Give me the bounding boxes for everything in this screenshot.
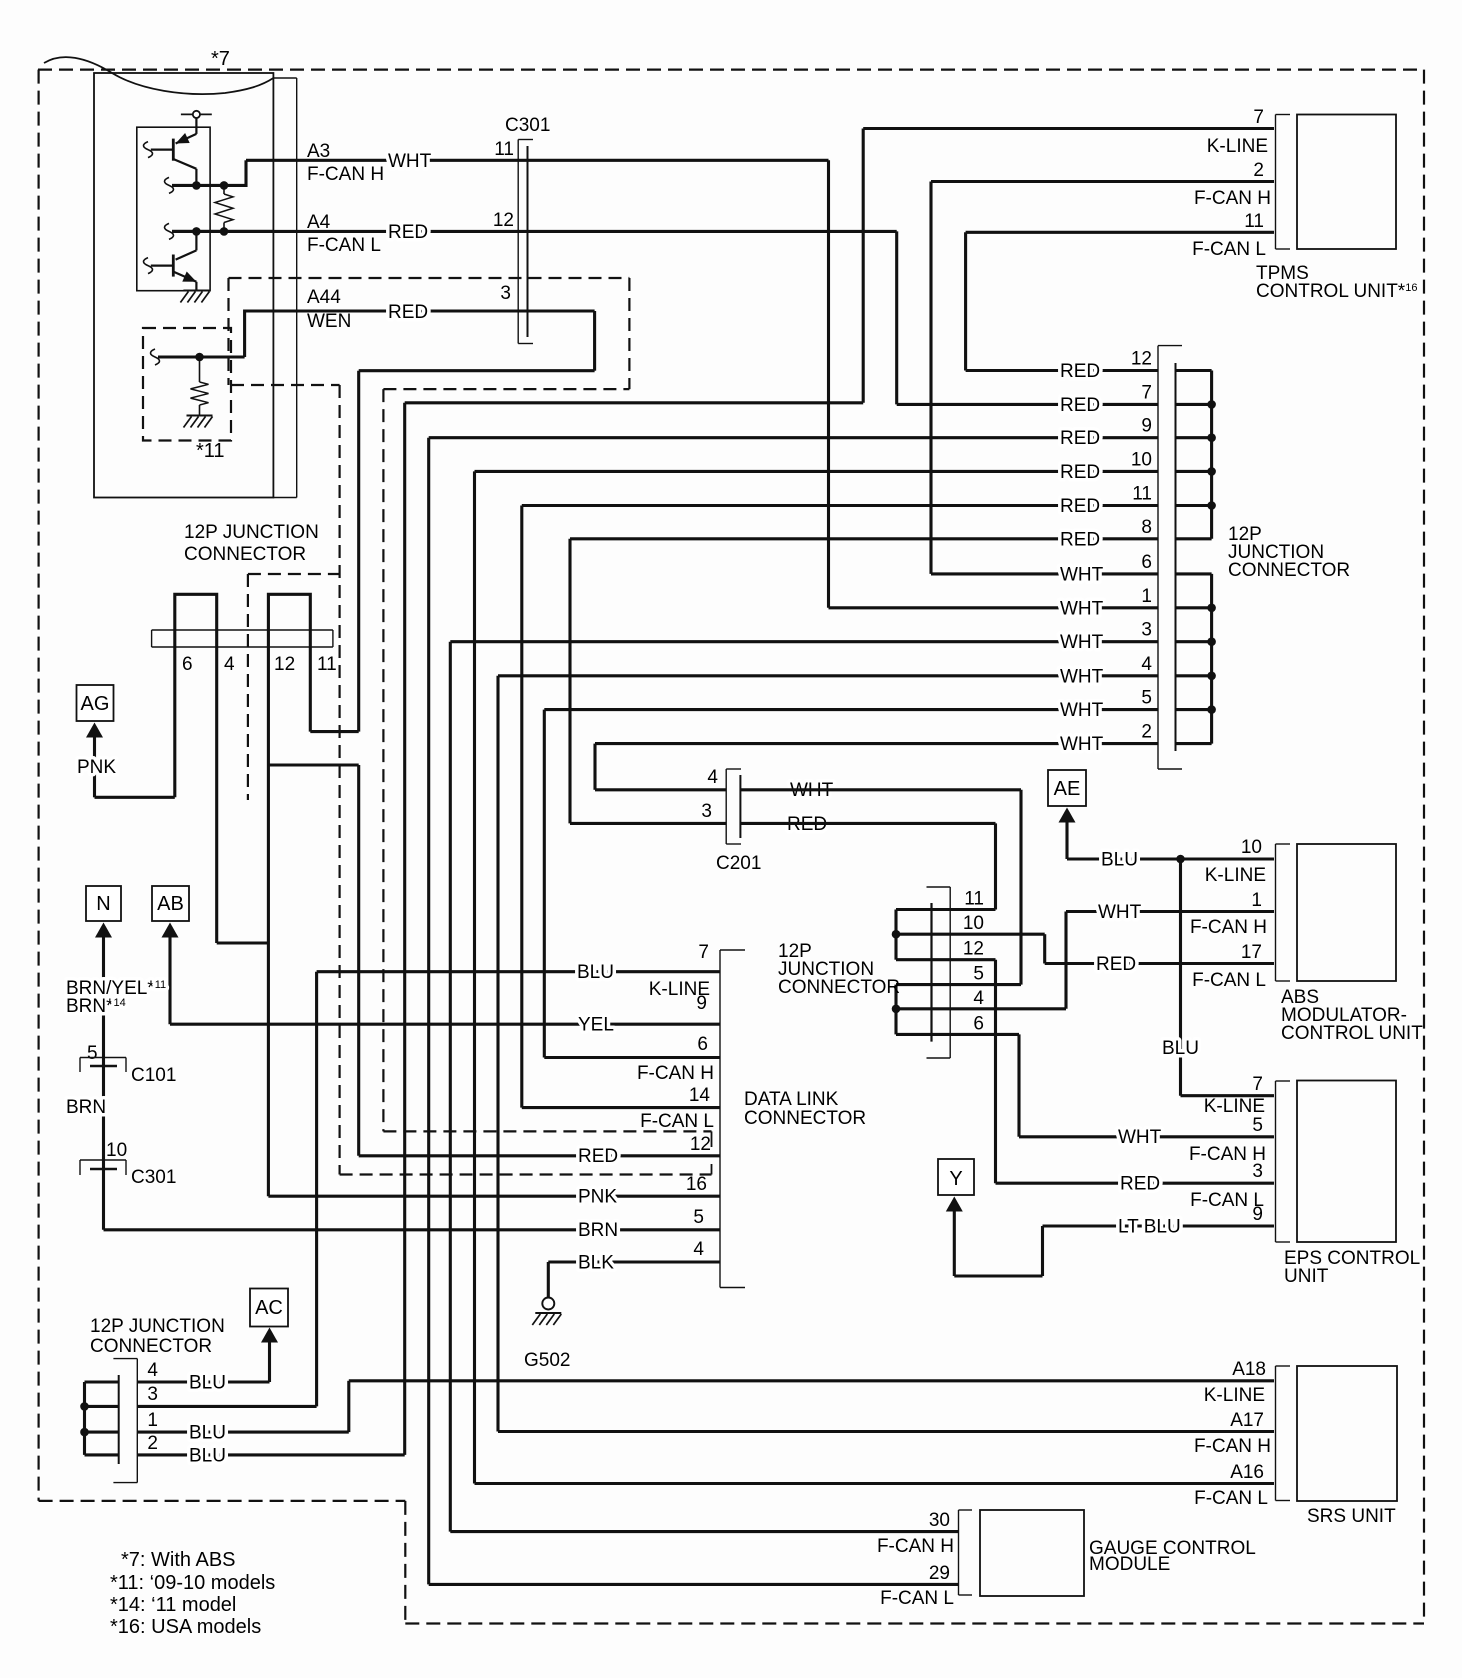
pin number 4 (middle 12P) <box>973 988 984 1009</box>
wire riser x=358 to DLC pin 12 <box>357 765 360 1156</box>
wire A44 to junction leg 11 <box>310 730 358 733</box>
svg-text:WHT: WHT <box>388 151 432 172</box>
SRS connector bracket <box>1276 1366 1291 1501</box>
wire stub right of pin 4 <box>1176 674 1212 677</box>
svg-text:2: 2 <box>1253 160 1264 181</box>
svg-text:12: 12 <box>963 939 984 960</box>
svg-text:RED: RED <box>1060 428 1100 449</box>
label F-CAN L (A4) <box>307 235 381 256</box>
svg-text:10: 10 <box>106 1140 127 1161</box>
wire riser x=570 row 8 down to C201 <box>568 539 571 824</box>
ABS connector bracket <box>1276 844 1291 981</box>
pin number 6 (right 12P) <box>1141 552 1152 573</box>
svg-text:*7: *7 <box>211 48 230 70</box>
wire WHT to right 12P pin 3 <box>450 640 1158 643</box>
connector box AB <box>152 886 189 921</box>
wire TPMS K-LINE riser x=863 <box>862 129 865 403</box>
label RED (A4 wire) <box>388 222 428 243</box>
svg-text:11: 11 <box>1244 211 1264 232</box>
svg-text:RED: RED <box>1096 954 1136 975</box>
arrow into Y <box>946 1197 963 1212</box>
wire RED to right 12P pin 10 <box>475 470 1159 473</box>
pin number 12 (middle 12P) <box>963 939 984 960</box>
wire bottom 12P pin 2 left segment <box>85 1453 119 1456</box>
pin number 16 (DLC) <box>686 1174 707 1195</box>
label K-LINE (EPS) <box>1204 1096 1265 1117</box>
wire bottom 12P pin 3 to riser x=316 <box>137 1405 316 1408</box>
outer dashed box *7 (with ABS) top edge <box>38 68 1424 70</box>
label WHT (right 12P pin 2) <box>1060 734 1104 755</box>
wire RED to right 12P pin 9 <box>429 436 1158 439</box>
svg-text:C201: C201 <box>716 853 761 874</box>
svg-text:9: 9 <box>1252 1204 1263 1225</box>
label AE <box>1054 778 1081 800</box>
svg-text:G502: G502 <box>524 1350 570 1371</box>
label C201 <box>716 853 761 874</box>
pin number 4 (DLC) <box>693 1239 704 1260</box>
svg-text:30: 30 <box>929 1510 950 1531</box>
svg-text:F-CAN L: F-CAN L <box>1192 970 1266 991</box>
svg-text:11: 11 <box>1132 484 1152 505</box>
label WHT (right 12P pin 4) <box>1060 666 1104 687</box>
junction dot bottom bus pin 3 <box>80 1402 89 1411</box>
pin number 5 (C101) <box>87 1043 98 1064</box>
svg-text:F-CAN H: F-CAN H <box>1190 917 1267 938</box>
TPMS control unit box <box>1297 115 1396 250</box>
label RED (DLC) <box>578 1146 618 1167</box>
transistor Q1 inner box <box>137 127 210 291</box>
svg-text:*11: ‘09-10 models: *11: ‘09-10 models <box>110 1572 275 1594</box>
wire F-CAN H to gauge pin 30 <box>450 1530 958 1533</box>
svg-text:C101: C101 <box>131 1065 176 1086</box>
pin number 6 (DLC) <box>697 1034 708 1055</box>
outer dashed box *7 bottom step vertical <box>404 1501 406 1624</box>
label K-LINE (SRS) <box>1204 1385 1265 1406</box>
middle 12P pin line <box>930 903 932 1042</box>
wire WHT F-CAN H to ABS pin 1 <box>1066 910 1274 913</box>
svg-text:*14: ‘11 model: *14: ‘11 model <box>110 1594 236 1616</box>
svg-text:A3: A3 <box>307 141 330 162</box>
connector C101 bracket <box>80 1058 126 1073</box>
label F-CAN L (ABS) <box>1192 970 1266 991</box>
svg-text:AG: AG <box>81 693 110 715</box>
svg-text:8: 8 <box>1141 517 1152 538</box>
svg-text:7: 7 <box>698 942 709 963</box>
EPS connector bracket <box>1276 1081 1291 1242</box>
svg-text:F-CAN L: F-CAN L <box>880 1588 954 1609</box>
svg-text:CONNECTOR: CONNECTOR <box>90 1336 212 1357</box>
svg-text:AE: AE <box>1054 778 1081 800</box>
svg-text:BLK: BLK <box>578 1253 614 1274</box>
junction dot right bus at y=709.6 <box>1207 705 1216 714</box>
svg-text:WHT: WHT <box>1060 734 1104 755</box>
F-CAN driver module box <box>94 73 273 498</box>
wire A44 riser down at x=358 <box>357 371 360 732</box>
svg-text:WHT: WHT <box>1060 632 1104 653</box>
svg-text:BLU: BLU <box>189 1373 226 1394</box>
junction dot right bus at y=675.8 <box>1207 672 1216 681</box>
svg-text:11: 11 <box>317 654 337 675</box>
right 12P bracket <box>1158 346 1182 769</box>
pin number 3 (bottom 12P) <box>147 1384 158 1405</box>
pin number 3 (EPS) <box>1252 1161 1263 1182</box>
svg-text:11: 11 <box>964 889 984 910</box>
junction dot resistor-bottom node <box>220 227 229 236</box>
wire K-LINE to EPS pin 7 <box>1181 1094 1275 1097</box>
wire riser x=545 row 5 down to DLC pin 6 <box>543 710 546 1058</box>
label K-LINE (ABS) <box>1205 865 1266 886</box>
svg-text:CONTROL UNIT*16: CONTROL UNIT*16 <box>1256 281 1417 302</box>
label C101 <box>131 1065 176 1086</box>
wire WHT to right 12P pin 5 <box>544 708 1158 711</box>
svg-text:17: 17 <box>1241 942 1262 963</box>
svg-text:F-CAN H: F-CAN H <box>1194 188 1271 209</box>
svg-text:RED: RED <box>1060 361 1100 382</box>
wire node to Q2 <box>195 231 197 250</box>
pin number 6 (top-left 12P) <box>182 654 193 675</box>
arrow into AB <box>162 923 179 938</box>
svg-text:7: 7 <box>1253 107 1264 128</box>
ground under R2 <box>184 416 213 428</box>
svg-text:RED: RED <box>1060 395 1100 416</box>
label C301 (lower) <box>131 1167 176 1188</box>
wire F-CAN H to TPMS pin 2 <box>931 180 1274 183</box>
wire riser x=475 row 10 down to SRS A16 <box>473 471 476 1483</box>
wire F-CAN H to DLC pin 6 <box>544 1056 720 1059</box>
label WHT (right 12P pin 6) <box>1060 564 1104 585</box>
pin number 2 (right 12P) <box>1141 722 1152 743</box>
label BRN*14 <box>66 996 126 1017</box>
connector box N <box>86 886 121 921</box>
dashed box *11 around termination resistor <box>143 328 231 441</box>
label F-CAN H (A3) <box>307 164 384 185</box>
svg-text:4: 4 <box>147 1360 158 1381</box>
inner dashed region left edge upper <box>227 278 229 385</box>
pin number 5 (DLC) <box>693 1207 704 1228</box>
svg-text:CONNECTOR: CONNECTOR <box>184 544 306 565</box>
label ABS <box>1281 987 1319 1008</box>
svg-text:F-CAN H: F-CAN H <box>637 1063 714 1084</box>
inner dashed region top edge <box>229 277 630 279</box>
legend *11 <box>110 1572 275 1594</box>
wire riser x=316 DLC pin 7 to bottom 12P pin 3 <box>315 972 318 1407</box>
svg-text:2: 2 <box>1141 722 1152 743</box>
wire resistor R1 bottom lead <box>223 223 225 232</box>
wire RED to right 12P pin 11 <box>522 504 1158 507</box>
wire riser x=500 row 4 down to SRS A17 <box>496 676 499 1432</box>
wire BLK to DLC pin 4 <box>548 1260 720 1263</box>
resistor R1 (bus termination) <box>215 194 233 223</box>
label *11 <box>196 440 225 462</box>
svg-text:A17: A17 <box>1230 1410 1264 1431</box>
wire AC stem <box>268 1343 271 1383</box>
svg-text:F-CAN H: F-CAN H <box>877 1536 954 1557</box>
pin number 7 (EPS) <box>1252 1074 1263 1095</box>
label 12P (middle) <box>778 941 812 962</box>
pin number 6 (middle 12P) <box>973 1013 984 1034</box>
wire RED F-CAN L to EPS pin 3 <box>996 1182 1275 1185</box>
wire stub right of pin 3 <box>1176 640 1212 643</box>
pin number 29 (gauge) <box>929 1563 950 1584</box>
svg-text:4: 4 <box>1141 654 1152 675</box>
label BRN (DLC) <box>578 1220 618 1241</box>
pin number A18 (SRS) <box>1232 1359 1266 1380</box>
wire WHT to right 12P pin 2 <box>595 742 1158 745</box>
wire K-LINE run y=403 to x=405 <box>405 401 864 404</box>
label F-CAN H (ABS) <box>1190 917 1267 938</box>
label A44 <box>307 287 341 308</box>
torn-edge squiggle over module <box>44 57 273 94</box>
wire LT BLU to EPS pin 9 <box>1043 1224 1275 1227</box>
dashed vertical branch at x=383 <box>382 389 384 1131</box>
label MODULE <box>1089 1554 1170 1575</box>
svg-text:3: 3 <box>701 801 712 822</box>
wire F-CAN L to DLC pin 14 <box>522 1106 720 1109</box>
label WHT (right 12P pin 5) <box>1060 700 1104 721</box>
label JUNCTION (right) <box>1228 542 1324 563</box>
svg-text:RED: RED <box>578 1146 618 1167</box>
label WEN <box>307 311 351 332</box>
svg-text:C301: C301 <box>131 1167 176 1188</box>
wire leg pin 4 down <box>215 648 218 943</box>
svg-text:12P JUNCTION: 12P JUNCTION <box>184 522 319 543</box>
wire row 2 WHT down-jog to C201 pin 4 <box>595 788 726 791</box>
junction dot right bus at y=404.4 <box>1207 400 1216 409</box>
outer dashed box *7 right edge <box>1423 70 1425 1624</box>
svg-text:3: 3 <box>147 1384 158 1405</box>
label F-CAN L (EPS) <box>1190 1190 1264 1211</box>
wire A3 F-CAN H to C301 pin 11 <box>246 159 829 162</box>
label WHT (A3 wire) <box>388 151 432 172</box>
outer dashed box *7 bottom edge step left <box>39 1500 406 1502</box>
label BLU (EPS riser) <box>1162 1038 1199 1059</box>
label JUNCTION (middle) <box>778 959 874 980</box>
label F-CAN H (TPMS) <box>1194 188 1271 209</box>
svg-text:5: 5 <box>1252 1115 1263 1136</box>
label 12P JUNCTION (top-left) <box>184 522 319 543</box>
label RED (A44 wire) <box>388 302 428 323</box>
svg-text:16: 16 <box>686 1174 707 1195</box>
wire mid row 5 <box>896 983 1021 986</box>
svg-text:RED: RED <box>1120 1174 1160 1195</box>
pin number 4 (right 12P) <box>1141 654 1152 675</box>
svg-text:BRN: BRN <box>578 1220 618 1241</box>
pin number 5 (right 12P) <box>1141 688 1152 709</box>
wire riser A3 x=828 down to row 1 <box>827 160 830 608</box>
wire mid row 11 <box>896 908 996 911</box>
pin number 2 (TPMS) <box>1253 160 1264 181</box>
wire C201 pin 4 to middle 12P riser <box>740 788 1021 791</box>
transistor Q1 base bar <box>172 139 175 161</box>
arrow into AC <box>261 1328 278 1343</box>
pin number 7 (right 12P) <box>1141 382 1152 403</box>
pin number 9 (right 12P) <box>1141 416 1152 437</box>
svg-text:RED: RED <box>1060 529 1100 550</box>
transistor Q2 emitter arrow <box>182 272 196 282</box>
pin number 2 (bottom 12P) <box>147 1433 158 1454</box>
pin number 30 (gauge) <box>929 1510 950 1531</box>
ground under Q2 <box>180 291 209 303</box>
wire riser A4 x=896 down to row 7 <box>895 231 898 404</box>
pin number 11 (TPMS) <box>1244 211 1264 232</box>
right 12P internal bus upper <box>1210 371 1213 539</box>
wire mid row 12 <box>896 958 996 961</box>
wire F-CAN L to SRS A16 <box>475 1482 1275 1485</box>
junction dot mid bus row 4 <box>892 1005 901 1014</box>
connector box AE <box>1048 770 1086 806</box>
wire leg 6 to AG <box>95 796 175 799</box>
label LT BLU (EPS) <box>1118 1217 1181 1238</box>
svg-text:10: 10 <box>1241 837 1262 858</box>
svg-text:*7: With ABS: *7: With ABS <box>121 1549 236 1571</box>
bottom 12P pin line <box>118 1375 120 1464</box>
svg-text:F-CAN L: F-CAN L <box>640 1111 714 1132</box>
transistor Q1 base lead <box>151 149 174 151</box>
label Y <box>949 1168 962 1190</box>
dashed vertical at x=339 <box>339 385 341 1175</box>
wire BLU bottom 12P pin 1 to riser x=348 <box>137 1431 348 1434</box>
wire stub right of pin 9 <box>1176 436 1212 439</box>
label CONNECTOR (bottom-left) <box>90 1336 212 1357</box>
svg-text:WHT: WHT <box>1060 700 1104 721</box>
wire stub right of pin 6 <box>1176 572 1212 575</box>
svg-text:12: 12 <box>493 210 514 231</box>
svg-text:UNIT: UNIT <box>1284 1266 1329 1287</box>
label C301 <box>505 115 550 136</box>
wire BLK down to ground <box>547 1262 550 1298</box>
svg-text:RED: RED <box>1060 496 1100 517</box>
pin number A16 (SRS) <box>1230 1462 1264 1483</box>
svg-text:AC: AC <box>255 1297 283 1319</box>
pin number 1 (ABS) <box>1251 890 1262 911</box>
svg-text:7: 7 <box>1252 1074 1263 1095</box>
pin number 11 (top-left 12P) <box>317 654 337 675</box>
pin number A17 (SRS) <box>1230 1410 1264 1431</box>
wire mid row 6 <box>896 1033 1019 1036</box>
middle 12P left bus lower <box>894 985 897 1035</box>
wire WHT F-CAN H to EPS pin 5 <box>1019 1135 1274 1138</box>
wire RED to DLC pin 12 <box>359 1154 720 1157</box>
svg-text:6: 6 <box>697 1034 708 1055</box>
label 12P JUNCTION (bottom-left) <box>90 1316 225 1337</box>
svg-text:4: 4 <box>973 988 984 1009</box>
label N <box>96 893 110 915</box>
transistor Q2 base lead <box>151 265 174 267</box>
wire BLU riser to EPS pin 7 <box>1179 859 1182 1096</box>
dashed enclosure right tick lower at DLC pin 12 <box>711 1164 713 1175</box>
label RED (right 12P pin 9) <box>1060 428 1100 449</box>
connector C101 pin bar <box>90 1065 117 1067</box>
label F-CAN L (SRS) <box>1194 1488 1268 1509</box>
dashed horizontal at y=385 <box>231 384 340 386</box>
resistor R2 (*11 termination) <box>191 382 209 405</box>
pin number 5 (middle 12P) <box>973 964 984 985</box>
wire F-CAN H to SRS A17 <box>498 1430 1274 1433</box>
label MODULATOR- <box>1281 1005 1407 1026</box>
connector C201 bracket <box>726 769 741 844</box>
svg-text:3: 3 <box>1141 620 1152 641</box>
module connector bracket <box>273 78 296 498</box>
svg-text:12: 12 <box>1131 349 1152 370</box>
pin number 4 (top-left 12P) <box>224 654 235 675</box>
svg-text:K-LINE: K-LINE <box>1204 1385 1265 1406</box>
svg-text:RED: RED <box>388 222 428 243</box>
label CONNECTOR (top-left) <box>184 544 306 565</box>
connector C301 bracket <box>518 140 533 344</box>
connector C201 pin line <box>739 775 741 838</box>
connector C301-lower pin bar <box>90 1168 117 1170</box>
label K-LINE (DLC) <box>649 979 710 1000</box>
svg-text:CONNECTOR: CONNECTOR <box>1228 560 1350 581</box>
junction dot mid bus row 10 <box>892 930 901 939</box>
wire AE stem <box>1065 823 1068 860</box>
svg-text:1: 1 <box>1141 586 1152 607</box>
wire node to A3 riser <box>244 160 247 187</box>
svg-text:F-CAN L: F-CAN L <box>1194 1488 1268 1509</box>
wire F-CAN L internal node row <box>172 230 273 233</box>
label AC <box>255 1297 283 1319</box>
label F-CAN L (TPMS) <box>1192 239 1266 260</box>
label CONTROL UNIT*16 <box>1256 281 1417 302</box>
legend *7 <box>121 1549 236 1571</box>
wire stub right of pin 11 <box>1176 504 1212 507</box>
DLC bracket <box>720 950 745 1288</box>
continuation mark at F-CAN L node <box>165 223 174 239</box>
SRS unit box <box>1297 1366 1397 1501</box>
continuation mark at WEN node <box>151 349 160 365</box>
label *7 <box>211 48 230 70</box>
label WHT (C201 right) <box>790 780 834 801</box>
svg-text:WHT: WHT <box>1118 1127 1162 1148</box>
label BLU (bottom pin 1) <box>189 1423 226 1444</box>
label RED (right 12P pin 11) <box>1060 496 1100 517</box>
label UNIT (EPS) <box>1284 1266 1329 1287</box>
wire RED to right 12P pin 12 <box>966 369 1158 372</box>
12P junction connector (top-left) U-loop 2 <box>268 594 310 648</box>
svg-text:BLU: BLU <box>189 1446 226 1467</box>
svg-text:WHT: WHT <box>1060 564 1104 585</box>
bottom 12P left bus <box>83 1382 86 1455</box>
wire BLU bottom 12P pin 4 to AC <box>137 1380 269 1383</box>
wire BLU bottom 12P pin 2 to riser x=405 <box>137 1453 404 1456</box>
wire leg 12 branch to x=358 <box>268 763 358 766</box>
wire stub right of pin 2 <box>1176 742 1212 745</box>
pin number 5 (EPS) <box>1252 1115 1263 1136</box>
wire WEN internal node row <box>158 355 245 358</box>
junction dot right bus at y=641.7 <box>1207 637 1216 646</box>
label BLK (DLC) <box>578 1253 614 1274</box>
wire resistor R2 top lead <box>199 357 201 382</box>
wire A44 riser down at x=594 <box>593 311 596 371</box>
wire LT BLU riser <box>1041 1226 1044 1276</box>
label BRN/YEL*11 <box>66 978 166 999</box>
label F-CAN H (DLC) <box>637 1063 714 1084</box>
pin number 7 (TPMS) <box>1253 107 1264 128</box>
label BLU (ABS K-LINE) <box>1101 850 1138 871</box>
continuation mark at Q1 base <box>144 142 153 158</box>
inner dashed region lower edge <box>383 388 629 390</box>
pin number 10 (ABS) <box>1241 837 1262 858</box>
label WHT (right 12P pin 1) <box>1060 598 1104 619</box>
dashed horizontal below DLC pin 12 <box>340 1173 712 1175</box>
middle 12P left bus upper <box>894 910 897 960</box>
svg-text:6: 6 <box>182 654 193 675</box>
svg-text:F-CAN L: F-CAN L <box>1192 239 1266 260</box>
label RED (right 12P pin 12) <box>1060 361 1100 382</box>
wire WHT to right 12P pin 6 <box>931 572 1158 575</box>
wire stub right of pin 8 <box>1176 537 1212 540</box>
pin number 17 (ABS) <box>1241 942 1262 963</box>
